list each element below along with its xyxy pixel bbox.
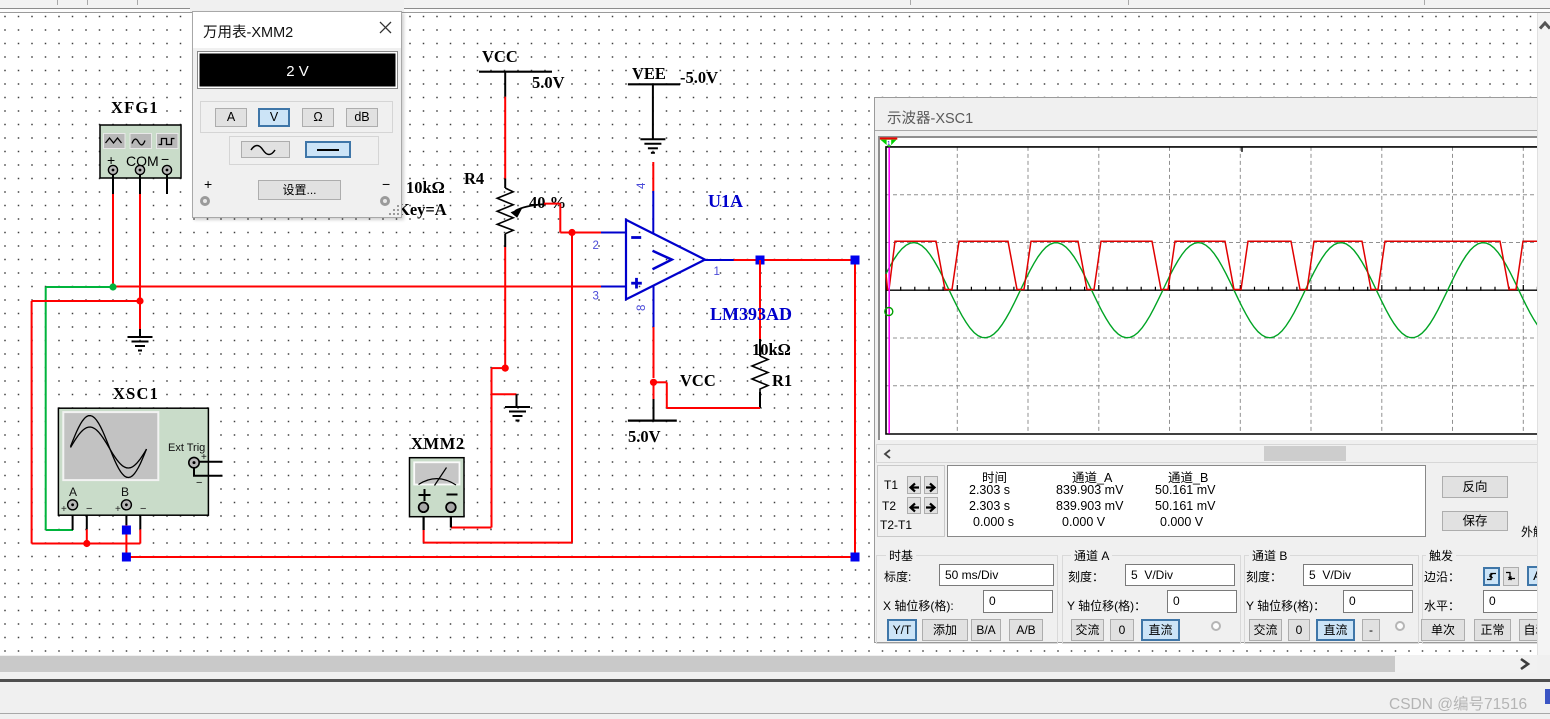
- svg-text:5.0V: 5.0V: [532, 73, 565, 92]
- svg-text:U1A: U1A: [708, 191, 743, 211]
- svg-text:VCC: VCC: [680, 371, 716, 390]
- svg-text:XMM2: XMM2: [411, 434, 465, 453]
- svg-text:XFG1: XFG1: [111, 98, 159, 117]
- svg-text:R1: R1: [772, 371, 792, 390]
- svg-text:10kΩ: 10kΩ: [406, 178, 445, 197]
- svg-text:XSC1: XSC1: [113, 384, 159, 403]
- svg-text:−: −: [140, 503, 146, 515]
- svg-text:1: 1: [714, 266, 720, 278]
- svg-text:VCC: VCC: [482, 47, 518, 66]
- svg-text:3: 3: [593, 291, 599, 303]
- svg-text:Ext Trig: Ext Trig: [168, 442, 205, 454]
- svg-text:Key=A: Key=A: [397, 200, 447, 219]
- svg-text:+: +: [115, 504, 121, 515]
- svg-text:2: 2: [593, 240, 599, 252]
- svg-text:A: A: [69, 485, 77, 499]
- svg-text:10kΩ: 10kΩ: [752, 340, 791, 359]
- svg-text:B: B: [121, 485, 129, 499]
- svg-text:−: −: [196, 477, 202, 489]
- svg-text:−: −: [161, 151, 169, 167]
- svg-text:5.0V: 5.0V: [628, 427, 661, 446]
- svg-text:VEE: VEE: [632, 64, 666, 83]
- svg-text:R4: R4: [464, 169, 484, 188]
- svg-text:-5.0V: -5.0V: [680, 68, 718, 87]
- svg-text:−: −: [86, 503, 92, 515]
- svg-text:4: 4: [636, 182, 648, 189]
- svg-text:LM393AD: LM393AD: [710, 304, 792, 324]
- svg-text:+: +: [61, 504, 67, 515]
- svg-text:8: 8: [636, 305, 648, 311]
